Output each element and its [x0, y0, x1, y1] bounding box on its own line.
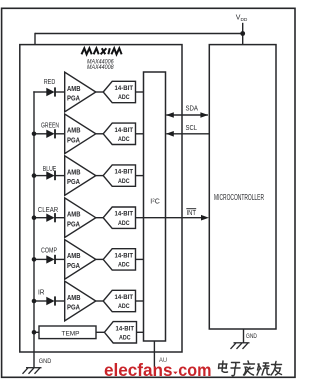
svg-text:MICROCONTROLLER: MICROCONTROLLER	[214, 193, 264, 202]
svg-text:PGA: PGA	[67, 137, 80, 144]
svg-text:PGA: PGA	[67, 263, 80, 270]
svg-text:COMP: COMP	[41, 248, 57, 255]
svg-text:14-BIT: 14-BIT	[115, 211, 134, 218]
svg-text:14-BIT: 14-BIT	[115, 127, 134, 134]
svg-text:14-BIT: 14-BIT	[115, 169, 134, 176]
svg-text:INT: INT	[187, 210, 197, 217]
svg-text:14-BIT: 14-BIT	[116, 325, 135, 332]
svg-text:MAX44008: MAX44008	[87, 64, 114, 71]
svg-text:BLUE: BLUE	[43, 166, 57, 173]
svg-text:AMB: AMB	[67, 212, 81, 219]
svg-text:14-BIT: 14-BIT	[115, 85, 134, 92]
svg-text:ADC: ADC	[118, 303, 130, 310]
svg-text:AMB: AMB	[67, 86, 81, 93]
svg-text:AMB: AMB	[67, 128, 81, 135]
svg-text:ADC: ADC	[118, 136, 130, 143]
svg-text:ADC: ADC	[118, 220, 130, 227]
svg-text:PGA: PGA	[67, 221, 80, 228]
svg-text:ADC: ADC	[118, 262, 130, 269]
svg-text:PGA: PGA	[67, 179, 80, 186]
svg-text:GND: GND	[246, 333, 257, 340]
svg-text:CLEAR: CLEAR	[38, 207, 59, 214]
svg-text:14-BIT: 14-BIT	[115, 252, 134, 259]
svg-text:ADC: ADC	[118, 178, 130, 185]
svg-text:RED: RED	[44, 79, 56, 86]
svg-text:elecfans: elecfans	[104, 360, 173, 380]
svg-text:com: com	[178, 360, 211, 380]
svg-text:PGA: PGA	[67, 305, 80, 312]
svg-text:IR: IR	[38, 290, 45, 297]
svg-text:ADC: ADC	[119, 335, 131, 342]
svg-text:PGA: PGA	[67, 96, 80, 103]
svg-text:I2C: I2C	[150, 198, 160, 206]
svg-text:AMB: AMB	[67, 169, 81, 176]
svg-text:ADC: ADC	[118, 94, 130, 101]
svg-text:GREEN: GREEN	[41, 123, 59, 130]
svg-text:SCL: SCL	[186, 125, 198, 132]
svg-text:AMB: AMB	[67, 295, 81, 302]
svg-text:14-BIT: 14-BIT	[115, 294, 134, 301]
svg-text:SDA: SDA	[186, 105, 199, 112]
svg-text:TEMP: TEMP	[62, 330, 80, 337]
svg-text:GND: GND	[39, 358, 52, 365]
svg-text:AMB: AMB	[67, 253, 81, 260]
